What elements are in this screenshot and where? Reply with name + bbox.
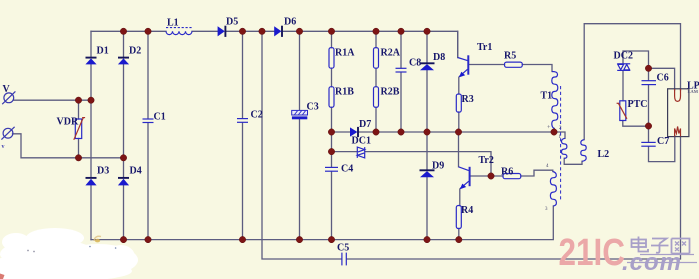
svg-text:R2A: R2A	[381, 48, 401, 59]
wire W3 top up and top-right loop to lamp	[584, 24, 680, 140]
diode D9	[420, 170, 435, 177]
wire C6 top lead	[648, 68, 650, 80]
inductor L1 with core dashes	[166, 28, 192, 35]
diode D8	[420, 63, 435, 70]
wire rail to C1	[147, 31, 149, 118]
svg-text:D4: D4	[130, 166, 142, 177]
svg-text:D1: D1	[97, 46, 109, 57]
wire rail to R1A	[331, 31, 333, 47]
wire Tr1 emitter to R3	[458, 77, 460, 94]
lamp top filament	[675, 89, 681, 101]
capacitor C5 (series, vertical plates)	[342, 253, 346, 266]
svg-text:PTC: PTC	[628, 99, 648, 110]
watermark CJK glyph dian	[632, 237, 649, 252]
junction node C8 bottom	[398, 129, 404, 135]
watermark CJK glyph wang	[672, 239, 690, 254]
junction node R4 bottom	[456, 236, 462, 242]
wire R1B through rail1 rail2 to C4	[331, 107, 333, 167]
wire VDR top lead	[78, 100, 80, 119]
wire top rail L1 to D5	[192, 30, 218, 32]
winding W4 (Tr2 base drive)	[550, 172, 556, 207]
wire Tr2 emitter to R4	[459, 189, 461, 206]
wire rail2 left of DC1	[332, 151, 357, 153]
lamp bottom filament	[675, 127, 681, 137]
wire midpoint dot to W2	[554, 132, 565, 138]
wire rail to D2	[123, 31, 125, 57]
diode D5	[218, 26, 226, 37]
junction node VDR top	[75, 97, 81, 103]
wire C1 to bottom rail	[147, 123, 149, 240]
wire D2 to line2	[123, 65, 125, 158]
wire rail to R2A	[375, 31, 377, 47]
transistor Tr2	[459, 167, 470, 189]
wire PTC bottom to dot	[623, 121, 649, 127]
svg-text:C7: C7	[657, 136, 669, 147]
svg-text:VDR: VDR	[57, 117, 79, 128]
capacitor C3 electrolytic	[292, 110, 308, 119]
diode D4	[118, 178, 129, 186]
svg-text:C5: C5	[337, 242, 349, 253]
junction node Tr2 base	[488, 173, 494, 179]
junction node R2A top	[373, 28, 379, 34]
junction node C3 top	[296, 28, 302, 34]
wire D1 to line1 to D3 (crossover of line2)	[90, 65, 92, 178]
wire DC2 top loop to C6 dot	[623, 51, 649, 68]
wire R2B to rail1	[375, 107, 377, 132]
resistor R3	[456, 94, 461, 112]
svg-text:R1A: R1A	[335, 48, 355, 59]
capacitor C1	[143, 119, 154, 123]
svg-text:C1: C1	[154, 112, 166, 123]
wire C5 lower line right + lamp right leg	[347, 137, 681, 259]
wire rail2 DC1 to Tr2 base (crossover of Tr2 collector)	[365, 152, 491, 176]
junction node C6 top	[645, 65, 651, 71]
wire top rail left segment	[91, 30, 166, 32]
wire rail to C2	[242, 31, 244, 118]
junction node C1 bottom	[145, 236, 151, 242]
svg-text:DC1: DC1	[352, 136, 371, 147]
junction node C3 bottom	[296, 236, 302, 242]
wire rail to C3	[299, 31, 301, 110]
transistor Tr1	[458, 55, 469, 77]
wire C2 to bottom rail	[242, 123, 244, 240]
wire R5 to T1 winding W1	[522, 65, 552, 72]
watermark gray specks	[27, 250, 29, 252]
svg-text:Tr1: Tr1	[477, 42, 492, 53]
wire C8 to rail1	[400, 72, 402, 132]
junction node C2 bottom	[239, 236, 245, 242]
svg-text:LAM: LAM	[688, 89, 699, 94]
wire DC2 to PTC	[622, 71, 624, 101]
svg-text:L1: L1	[167, 18, 179, 29]
junction node C6-C7 PTC junction	[645, 123, 651, 129]
svg-text:R5: R5	[504, 51, 516, 62]
yellow highlight arc on bottom rail corner	[94, 236, 101, 241]
svg-text:D9: D9	[432, 161, 444, 172]
diac DC1	[357, 147, 364, 158]
junction node C8 top	[398, 28, 404, 34]
junction node C5-return top	[259, 28, 265, 34]
svg-text:D2: D2	[129, 46, 141, 57]
junction node D2-D4 junction	[120, 155, 126, 161]
input terminal 2	[1, 127, 14, 140]
wire rail to D8 cathode	[426, 31, 428, 63]
wire rail1 to D9 cathode	[426, 132, 428, 170]
wire C7 top lead	[648, 126, 650, 142]
transformer T1 core (dashed)	[560, 86, 562, 202]
varistor VDR	[74, 118, 85, 140]
diode D6	[274, 26, 282, 37]
lamp LP envelope	[668, 89, 689, 137]
svg-text:21IC: 21IC	[559, 232, 626, 274]
junction node R1B bottom	[328, 129, 334, 135]
svg-text:R1B: R1B	[335, 87, 354, 98]
diac DC2	[617, 64, 630, 71]
svg-text:DC2: DC2	[614, 51, 633, 62]
wire input line2	[13, 134, 124, 158]
svg-text:R6: R6	[501, 166, 513, 177]
capacitor C6	[642, 81, 657, 85]
svg-text:R4: R4	[461, 205, 473, 216]
junction node C2 top	[239, 28, 245, 34]
junction node D8 top	[424, 28, 430, 34]
svg-text:V: V	[3, 84, 11, 95]
junction node D2 top	[120, 28, 126, 34]
capacitor C2	[237, 119, 248, 123]
junction node R1A top	[328, 28, 334, 34]
capacitor C7	[641, 142, 655, 146]
watermark strikethrough lines	[640, 254, 694, 256]
junction node C1 top	[145, 28, 151, 34]
svg-text:Tr2: Tr2	[479, 155, 494, 166]
watermark CJK glyph zi	[651, 239, 669, 253]
svg-text:D7: D7	[359, 119, 371, 130]
svg-text:R2B: R2B	[381, 87, 400, 98]
wire rail1 right of D7 to T1 midpoint	[358, 131, 554, 133]
svg-text:T1: T1	[541, 91, 553, 102]
wire R3 to rail1	[458, 112, 460, 132]
svg-text:R3: R3	[462, 94, 474, 105]
resistor R2A	[374, 48, 379, 69]
wire rail1 left of D7	[332, 131, 351, 133]
junction node D9 bottom	[424, 236, 430, 242]
wire C6 dot to lamp top-left leg	[649, 68, 675, 90]
svg-text:D5: D5	[226, 17, 238, 28]
diode D3	[85, 178, 96, 186]
resistor R4	[456, 206, 461, 229]
wire rail to C8	[400, 31, 402, 68]
svg-text:D6: D6	[284, 17, 296, 28]
wire D9 anode to bottom rail	[426, 177, 428, 239]
wire Tr2 collector from rail1 dot	[458, 132, 460, 167]
resistor R1A	[329, 48, 334, 69]
svg-text:C4: C4	[341, 164, 353, 175]
junction node C4 top rail2	[328, 148, 334, 154]
wire C6 bottom lead	[648, 85, 650, 126]
wire C3 to bottom rail	[299, 119, 301, 239]
wire D8 anode to rail1	[426, 70, 428, 132]
svg-text:C2: C2	[251, 110, 263, 121]
junction node D1-D3 junction	[88, 97, 94, 103]
wire R6 to W4	[521, 170, 553, 176]
wire bottom rail	[91, 206, 553, 240]
resistor R5	[505, 62, 523, 67]
junction node R2B bottom	[373, 129, 379, 135]
wire input line1	[13, 99, 91, 101]
wire W2 bottom to W3 bottom U link	[564, 158, 582, 164]
wire x262 line top rail to lower line	[262, 31, 341, 259]
svg-text:C6: C6	[657, 73, 669, 84]
svg-text:D3: D3	[97, 166, 109, 177]
input terminal 1	[2, 91, 15, 104]
junction node D4 bottom	[120, 236, 126, 242]
svg-text:D8: D8	[433, 52, 445, 63]
winding W2 (midpoint down)	[562, 138, 567, 158]
wire R1A to R1B	[331, 68, 333, 87]
wire R4 to bottom rail	[458, 229, 460, 240]
wire W1 bottom to dot	[553, 129, 555, 133]
capacitor C8	[396, 68, 407, 72]
svg-text:C3: C3	[307, 102, 319, 113]
wire top rail right segment to Tr1 collector corner	[283, 31, 458, 57]
PTC thermistor	[617, 101, 627, 121]
diode D2	[118, 58, 129, 65]
wire top rail D5 to D6	[226, 30, 275, 32]
junction node T1 midpoint	[551, 129, 557, 135]
svg-text:C8: C8	[409, 58, 421, 69]
transformer T1 winding W1 (to R5/Tr1 base)	[552, 72, 558, 129]
junction node D8-D9 junction	[424, 129, 430, 135]
svg-text:v: v	[2, 144, 5, 150]
junction node C4 bottom	[328, 236, 334, 242]
inductor L2 winding W3	[581, 140, 586, 162]
wire Tr1 collector	[457, 31, 459, 57]
resistor R2B	[374, 87, 379, 108]
wire VDR bottom lead	[78, 139, 80, 158]
diode D7	[350, 127, 358, 137]
junction node VDR bottom	[75, 155, 81, 161]
watermark white blob	[0, 228, 138, 279]
wire line2 to D4	[123, 158, 125, 178]
wire D4 to bottom rail	[123, 186, 125, 240]
wire Tr1 base line to R5	[469, 64, 504, 66]
wire C7 to lamp bottom-left pin	[649, 136, 675, 162]
resistor R1B	[329, 87, 334, 108]
watermark red mark bottom-left corner	[0, 274, 5, 279]
diode D1	[85, 58, 96, 65]
wire rail to D1 anode-bar	[90, 31, 92, 57]
wire C4 to bottom rail	[331, 172, 333, 240]
resistor R6	[503, 174, 521, 179]
svg-text:L2: L2	[598, 149, 610, 160]
capacitor C4	[325, 167, 338, 171]
wire D3 to bottom rail	[90, 186, 92, 240]
wire Tr2 base line	[471, 175, 504, 177]
junction node R3-Tr2 collector	[455, 129, 461, 135]
wire R2A to R2B	[375, 68, 377, 87]
